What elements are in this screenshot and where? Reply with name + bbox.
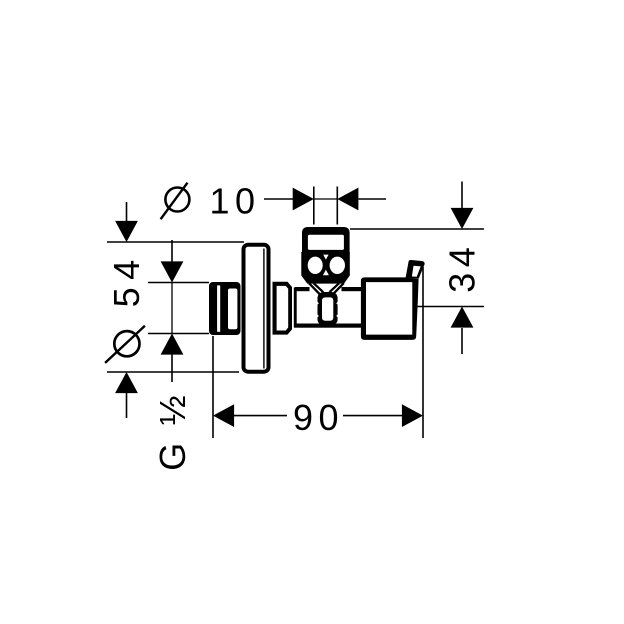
svg-text:G ½: G ½ <box>152 390 193 471</box>
svg-text:54: 54 <box>106 252 147 307</box>
svg-text:34: 34 <box>441 242 482 293</box>
svg-text:90: 90 <box>293 397 344 438</box>
svg-text:10: 10 <box>210 181 261 222</box>
